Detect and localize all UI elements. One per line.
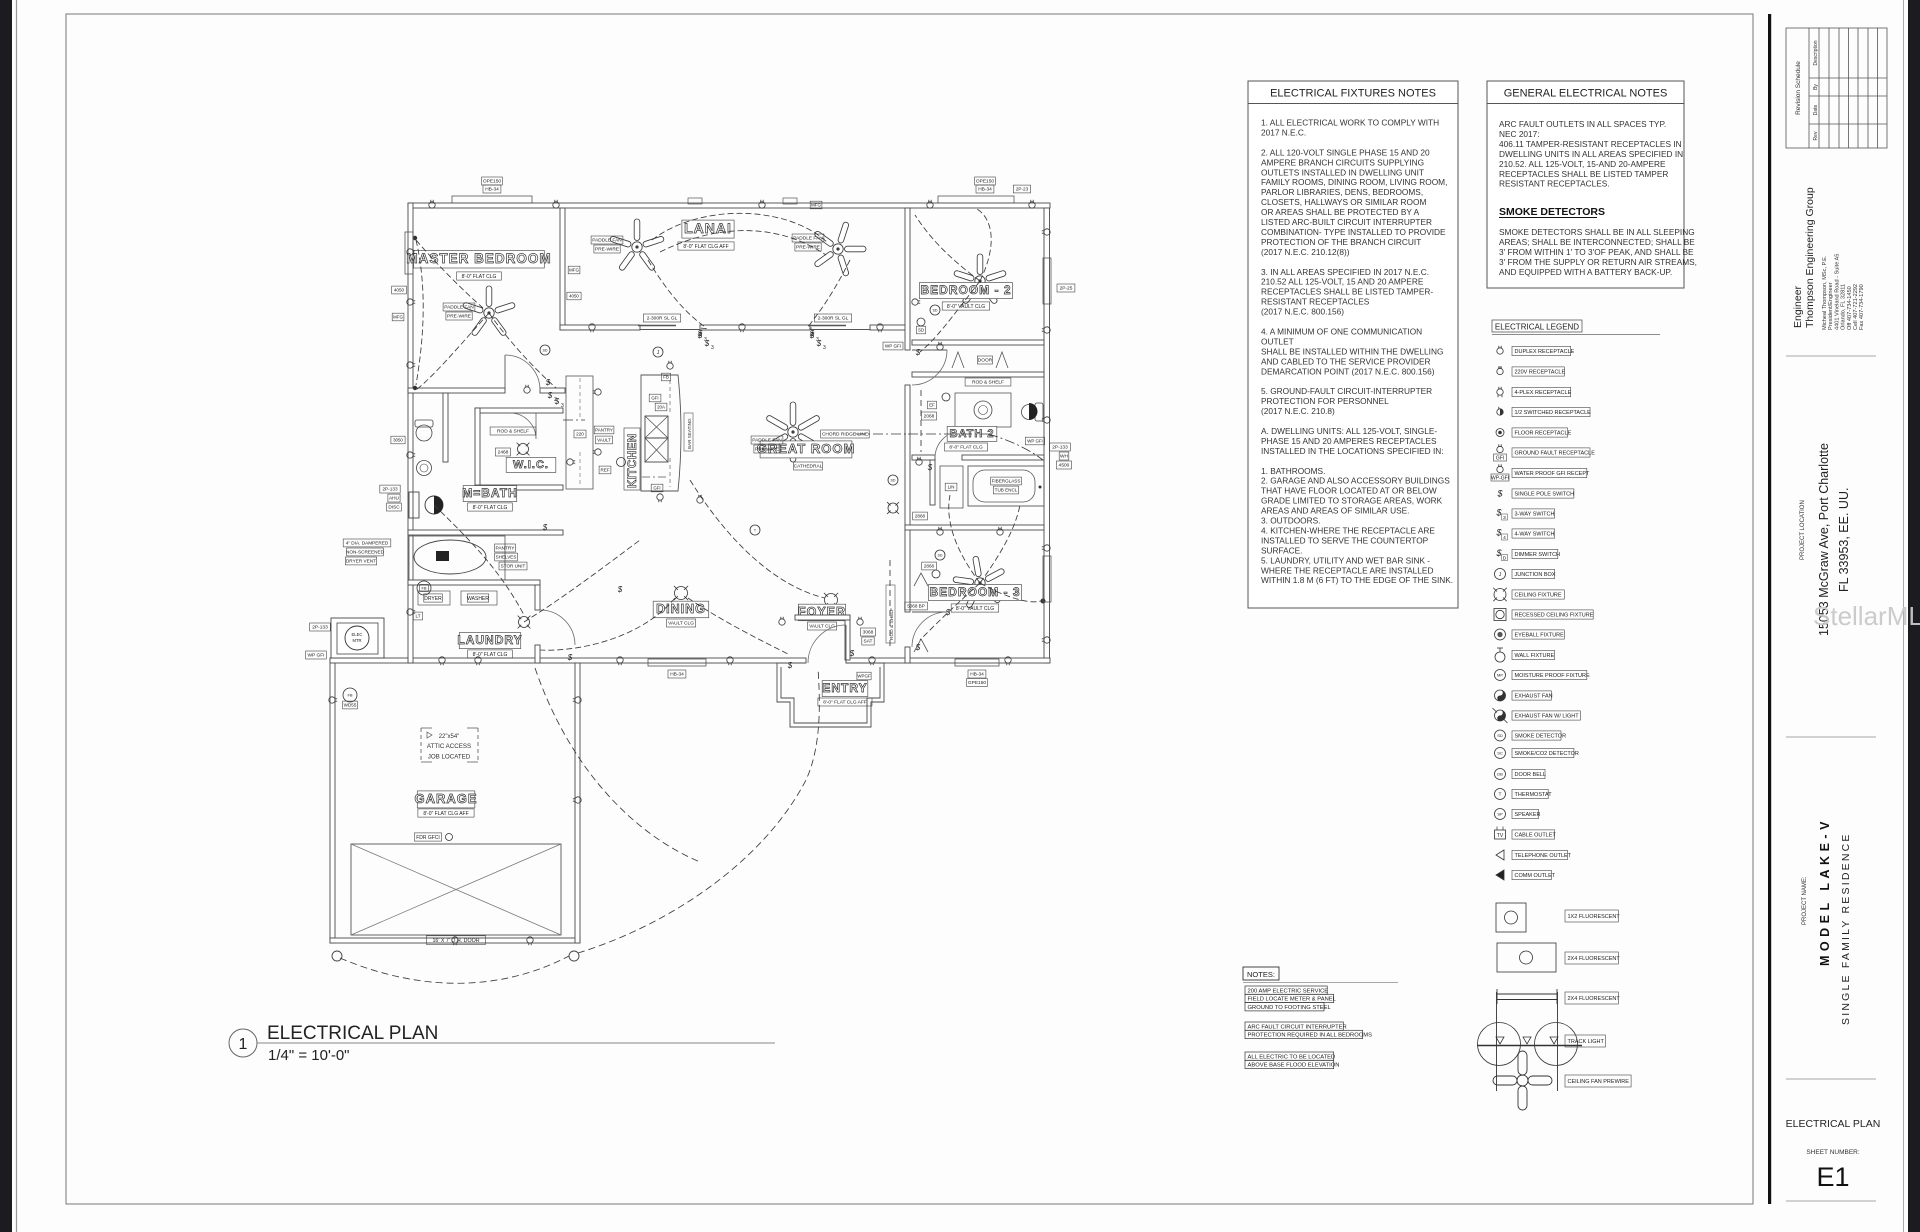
svg-text:RECEPTACLES SHALL BE LISTED TA: RECEPTACLES SHALL BE LISTED TAMPER — [1499, 169, 1668, 179]
svg-text:EXHAUST FAN W/ LIGHT: EXHAUST FAN W/ LIGHT — [1515, 714, 1580, 720]
svg-text:200 AMP ELECTRIC SERVICE: 200 AMP ELECTRIC SERVICE — [1248, 988, 1329, 994]
svg-text:D: D — [1503, 556, 1507, 562]
svg-text:RECESSED CEILING FIXTURE: RECESSED CEILING FIXTURE — [1515, 613, 1594, 619]
svg-text:ABOVE BASE FLOOD ELEVATION: ABOVE BASE FLOOD ELEVATION — [1248, 1063, 1340, 1069]
svg-text:TV: TV — [1497, 833, 1504, 839]
door: bedroom2 — [912, 349, 947, 351]
svg-text:2068: 2068 — [924, 414, 935, 420]
svg-text:ROD & SHELF: ROD & SHELF — [972, 380, 1004, 386]
svg-text:2868: 2868 — [915, 514, 926, 519]
svg-text:ROD & SHELF: ROD & SHELF — [497, 429, 529, 435]
svg-text:CEILING FAN PREWIRE: CEILING FAN PREWIRE — [1568, 1079, 1630, 1085]
wall: toilet room — [443, 393, 448, 462]
svg-text:ELECTRICAL FIXTURES NOTES: ELECTRICAL FIXTURES NOTES — [1270, 88, 1436, 100]
svg-text:DUPLEX RECEPTACLE: DUPLEX RECEPTACLE — [1515, 349, 1575, 355]
svg-text:8′-0″ FLAT CLG: 8′-0″ FLAT CLG — [473, 505, 508, 511]
svg-text:4" DIA. DAMPERED: 4" DIA. DAMPERED — [346, 541, 389, 546]
svg-text:SC: SC — [1497, 750, 1503, 755]
svg-text:8′-0″ VAULT CLG: 8′-0″ VAULT CLG — [956, 606, 994, 612]
svg-text:PRE-WIRE: PRE-WIRE — [796, 245, 820, 251]
svg-text:E1: E1 — [1816, 1162, 1849, 1192]
svg-text:$: $ — [704, 339, 710, 348]
svg-text:WASHER: WASHER — [467, 596, 489, 602]
svg-text:4050: 4050 — [569, 294, 579, 299]
wall: wic bottom — [475, 485, 563, 490]
svg-text:2X4 FLUORESCENT: 2X4 FLUORESCENT — [1568, 956, 1621, 962]
svg-text:FIELD LOCATE METER & PANEL: FIELD LOCATE METER & PANEL — [1248, 997, 1337, 1003]
svg-text:WP GFI: WP GFI — [1027, 439, 1043, 444]
svg-text:$: $ — [809, 329, 815, 338]
svg-text:RESISTANT RECEPTACLES.: RESISTANT RECEPTACLES. — [1499, 179, 1610, 189]
svg-text:SP: SP — [1497, 811, 1503, 816]
svg-text:$: $ — [617, 585, 623, 594]
svg-text:LT: LT — [415, 614, 420, 619]
svg-text:GROUND TO FOOTING STEEL: GROUND TO FOOTING STEEL — [1248, 1005, 1332, 1011]
sink — [417, 461, 432, 476]
smoke detectors & misc — [540, 345, 550, 355]
svg-text:3' FROM THE SUPPLY OR RETURN A: 3' FROM THE SUPPLY OR RETURN AIR STREAMS… — [1499, 257, 1697, 267]
entry door arc — [808, 625, 846, 663]
wall: master/lanai divider — [560, 208, 565, 330]
svg-text:WP-GFI: WP-GFI — [1491, 476, 1509, 482]
svg-text:By: By — [1813, 84, 1819, 90]
svg-text:CATHEDRAL: CATHEDRAL — [794, 464, 823, 470]
svg-text:A. DWELLING UNITS: ALL 125-VOL: A. DWELLING UNITS: ALL 125-VOLT, SINGLE- — [1261, 426, 1437, 436]
svg-text:SMOKE/CO2 DETECTOR: SMOKE/CO2 DETECTOR — [1515, 751, 1579, 757]
svg-text:4. KITCHEN-WHERE THE RECEPTACL: 4. KITCHEN-WHERE THE RECEPTACLE ARE — [1261, 525, 1435, 535]
svg-text:MTR: MTR — [352, 638, 361, 643]
svg-text:2-300R SL GL: 2-300R SL GL — [647, 316, 678, 322]
svg-text:WP GFI: WP GFI — [308, 653, 325, 659]
plan title — [229, 1029, 257, 1057]
svg-text:2P-23: 2P-23 — [1016, 187, 1029, 192]
circuit home-run arcs — [332, 951, 342, 961]
svg-text:2017 N.E.C.: 2017 N.E.C. — [1261, 127, 1306, 137]
svg-text:GROUND FAULT RECEPTACLE: GROUND FAULT RECEPTACLE — [1515, 451, 1596, 457]
svg-text:VAULT: VAULT — [597, 438, 611, 443]
svg-text:TELEPHONE OUTLET: TELEPHONE OUTLET — [1515, 853, 1572, 859]
svg-text:MOISTURE PROOF FIXTURE: MOISTURE PROOF FIXTURE — [1515, 673, 1591, 679]
title block thick divider — [1768, 14, 1771, 1204]
wall: garage right — [575, 663, 580, 943]
svg-text:$: $ — [945, 608, 951, 617]
svg-text:ENTRY: ENTRY — [822, 681, 867, 695]
mbath labels — [463, 486, 517, 502]
svg-text:2P-133: 2P-133 — [1052, 445, 1068, 451]
hall boxes — [921, 412, 936, 420]
window: master top — [452, 196, 532, 203]
svg-text:2P-25: 2P-25 — [1060, 286, 1073, 292]
svg-text:PADDLE FAN: PADDLE FAN — [592, 238, 622, 244]
garage door opening — [351, 844, 561, 935]
svg-text:PROJECT NAME:: PROJECT NAME: — [1802, 876, 1808, 925]
svg-text:PHASE 15 AND 20 AMPERES RECEPT: PHASE 15 AND 20 AMPERES RECEPTACLES — [1261, 436, 1437, 446]
svg-text:ELEC: ELEC — [352, 632, 363, 637]
svg-text:OPE150: OPE150 — [976, 179, 994, 185]
bedroom3 fan — [953, 556, 1005, 609]
wall: wic top — [475, 408, 563, 413]
hall light — [887, 502, 899, 514]
svg-text:LAUNDRY: LAUNDRY — [457, 633, 522, 647]
electrical legend title — [1492, 320, 1582, 332]
toilet — [416, 425, 432, 441]
svg-text:PANTRY: PANTRY — [495, 546, 515, 552]
svg-text:Off 407-734-1450: Off 407-734-1450 — [1847, 286, 1853, 330]
svg-text:DOOR BELL: DOOR BELL — [1515, 772, 1546, 778]
svg-text:1X2 FLUORESCENT: 1X2 FLUORESCENT — [1568, 914, 1621, 920]
svg-text:ELECTRICAL PLAN: ELECTRICAL PLAN — [1786, 1118, 1881, 1130]
svg-text:4401 Vineland Road - Suite A5: 4401 Vineland Road - Suite A5 — [1834, 254, 1840, 330]
svg-text:DEMARCATION POINT (2017 N.E.C.: DEMARCATION POINT (2017 N.E.C. 800.156) — [1261, 366, 1435, 376]
svg-text:AND EQUIPPED WITH A BATTERY BA: AND EQUIPPED WITH A BATTERY BACK-UP. — [1499, 267, 1672, 277]
svg-text:HB-34: HB-34 — [670, 672, 684, 678]
wic labels — [506, 457, 556, 472]
svg-text:DWELLING UNITS IN ALL AREAS SP: DWELLING UNITS IN ALL AREAS SPECIFIED IN — [1499, 149, 1683, 159]
svg-text:PARLOR LIBRARIES, DENS, BEDROO: PARLOR LIBRARIES, DENS, BEDROOMS, — [1261, 187, 1423, 197]
svg-text:SD: SD — [1497, 733, 1503, 738]
svg-text:EXHAUST FAN: EXHAUST FAN — [1515, 694, 1553, 700]
svg-text:PRE-WIRE: PRE-WIRE — [755, 447, 779, 453]
wall: house top — [408, 203, 1050, 208]
svg-text:2868: 2868 — [924, 564, 935, 569]
svg-text:406.11 TAMPER-RESISTANT RECEPT: 406.11 TAMPER-RESISTANT RECEPTACLES IN — [1499, 139, 1682, 149]
door: bedroom3 — [912, 611, 947, 613]
svg-text:FB: FB — [663, 375, 669, 380]
notes block bottom — [1243, 967, 1279, 980]
svg-text:Revision Schedule: Revision Schedule — [1795, 61, 1802, 115]
svg-text:SINGLE POLE SWITCH: SINGLE POLE SWITCH — [1515, 492, 1575, 498]
svg-text:$: $ — [816, 339, 822, 348]
attic access note — [421, 728, 478, 762]
svg-text:SD: SD — [891, 478, 896, 482]
svg-text:OPE150: OPE150 — [483, 179, 501, 185]
svg-text:3050: 3050 — [393, 438, 403, 443]
svg-text:WATER PROOF GFI RECEPT: WATER PROOF GFI RECEPT — [1515, 471, 1591, 477]
svg-text:$: $ — [547, 391, 553, 400]
wall: lanai bottom w/ slider openings — [560, 325, 640, 330]
svg-text:(2017 N.E.C. 210.8): (2017 N.E.C. 210.8) — [1261, 406, 1335, 416]
master tub — [409, 536, 505, 580]
svg-text:1/2 SWITCHED RECEPTACLE: 1/2 SWITCHED RECEPTACLE — [1515, 410, 1592, 416]
bedroom2 circuit — [920, 281, 980, 352]
electrical legend items — [1497, 346, 1503, 354]
AHU disconnect — [409, 492, 419, 518]
bedroom3 circuit — [920, 583, 980, 640]
svg-text:MFG: MFG — [811, 203, 821, 208]
svg-text:LISTED ARC-BUILT CIRCUIT INTER: LISTED ARC-BUILT CIRCUIT INTERRUPTER — [1261, 217, 1432, 227]
svg-text:SMOKE DETECTOR: SMOKE DETECTOR — [1515, 734, 1567, 740]
foyer walls — [845, 615, 850, 660]
wall: house right — [1044, 208, 1050, 663]
svg-text:DB: DB — [1497, 771, 1503, 776]
wall: house bottom left segment — [408, 658, 806, 663]
svg-text:2X4 FLUORESCENT: 2X4 FLUORESCENT — [1568, 996, 1621, 1002]
svg-text:5. LAUNDRY, UTILITY AND WET BA: 5. LAUNDRY, UTILITY AND WET BAR SINK - — [1261, 555, 1430, 565]
wall: laundry east — [535, 585, 540, 610]
svg-text:Fax 407-734-1790: Fax 407-734-1790 — [1859, 284, 1865, 330]
svg-text:22"x54": 22"x54" — [439, 734, 460, 740]
great room fan — [766, 402, 821, 462]
svg-text:SURFACE.: SURFACE. — [1261, 545, 1303, 555]
svg-text:(2017 N.E.C. 800.156): (2017 N.E.C. 800.156) — [1261, 307, 1344, 317]
svg-text:3. OUTDOORS.: 3. OUTDOORS. — [1261, 516, 1320, 526]
door: master — [504, 355, 506, 391]
svg-text:1. ALL ELECTRICAL WORK TO COMP: 1. ALL ELECTRICAL WORK TO COMPLY WITH — [1261, 118, 1439, 128]
svg-text:RECEPTACLES SHALL BE LISTED TA: RECEPTACLES SHALL BE LISTED TAMPER- — [1261, 287, 1433, 297]
svg-text:President/Engineer: President/Engineer — [1828, 282, 1834, 330]
svg-text:SAT: SAT — [864, 639, 873, 645]
laundry-kitchen circuit — [524, 540, 640, 622]
svg-text:WP GFI: WP GFI — [885, 344, 901, 349]
svg-text:TRACK LIGHT: TRACK LIGHT — [1568, 1039, 1605, 1045]
svg-text:GFI: GFI — [651, 396, 658, 401]
svg-text:1. BATHROOMS.: 1. BATHROOMS. — [1261, 466, 1325, 476]
small appliance receptacles — [593, 389, 601, 395]
svg-text:4. A MINIMUM OF ONE COMMUNICAT: 4. A MINIMUM OF ONE COMMUNICATION — [1261, 326, 1422, 336]
wall: master bedroom south — [408, 388, 505, 393]
svg-text:JUNCTION BOX: JUNCTION BOX — [1515, 572, 1556, 578]
windows bottom wall — [648, 659, 706, 666]
lanai fans — [610, 219, 665, 271]
svg-text:4-WAY SWITCH: 4-WAY SWITCH — [1515, 532, 1555, 538]
lanai slider doors — [640, 329, 700, 331]
svg-text:Cell 407-721-2292: Cell 407-721-2292 — [1853, 284, 1859, 330]
svg-text:EF: EF — [929, 403, 935, 408]
svg-text:PRE-WIRE: PRE-WIRE — [595, 247, 619, 253]
svg-text:210.52 ALL 125-VOLT, 15 AND 20: 210.52 ALL 125-VOLT, 15 AND 20 AMPERE — [1261, 277, 1424, 287]
svg-text:5068 BP: 5068 BP — [907, 604, 925, 609]
svg-text:8′-0″ VAULT CLG: 8′-0″ VAULT CLG — [947, 304, 985, 310]
receptacles — [429, 200, 435, 208]
svg-text:ARC FAULT CIRCUIT INTERRUPTER: ARC FAULT CIRCUIT INTERRUPTER — [1248, 1024, 1347, 1030]
svg-text:ELECTRICAL PLAN: ELECTRICAL PLAN — [267, 1023, 438, 1044]
svg-text:HB-34: HB-34 — [485, 187, 499, 193]
svg-text:ATTIC ACCESS: ATTIC ACCESS — [427, 743, 471, 750]
wall: garage left — [330, 658, 335, 943]
svg-text:REF: REF — [601, 468, 610, 473]
svg-text:OR AREAS SHALL BE PROTECTED BY: OR AREAS SHALL BE PROTECTED BY A — [1261, 207, 1420, 217]
svg-text:SMOKE DETECTORS SHALL BE IN AL: SMOKE DETECTORS SHALL BE IN ALL SLEEPING — [1499, 227, 1695, 237]
pantry boxes — [495, 544, 516, 552]
svg-text:SHELVES: SHELVES — [496, 555, 517, 560]
svg-text:DRYER: DRYER — [424, 596, 442, 602]
kitchen west counter — [566, 376, 593, 489]
svg-text:$: $ — [1496, 489, 1503, 499]
svg-text:THAT HAVE FLOOR LOCATED AT OR: THAT HAVE FLOOR LOCATED AT OR BELOW — [1261, 486, 1437, 496]
svg-text:MODEL LAKE-V: MODEL LAKE-V — [1818, 817, 1832, 966]
svg-text:BEDROOM - 2: BEDROOM - 2 — [920, 283, 1011, 297]
top small boxes — [810, 201, 822, 209]
svg-text:BEDROOM - 3: BEDROOM - 3 — [929, 585, 1020, 599]
wall: laundry north — [408, 580, 540, 585]
svg-text:210.52. ALL 125-VOLT, 15-AND 2: 210.52. ALL 125-VOLT, 15-AND 20-AMPERE — [1499, 159, 1666, 169]
svg-text:8′-0″ FLAT CLG AFF: 8′-0″ FLAT CLG AFF — [683, 244, 728, 250]
laundry labels — [459, 633, 520, 649]
svg-text:DISC: DISC — [388, 505, 400, 510]
svg-text:SD: SD — [543, 348, 548, 352]
bedroom2 closet — [912, 340, 1044, 345]
svg-text:GPE150: GPE150 — [968, 680, 986, 686]
svg-text:GRADE LIMITED TO STORAGE AREAS: GRADE LIMITED TO STORAGE AREAS, WORK — [1261, 496, 1443, 506]
wall: mbath south — [408, 530, 563, 535]
svg-text:$: $ — [787, 661, 793, 670]
kitchen island — [641, 375, 681, 491]
wall: garage top stub — [330, 658, 408, 663]
door: wic — [510, 413, 536, 439]
svg-text:3068: 3068 — [863, 630, 874, 636]
ridge dash-dot — [855, 433, 908, 435]
svg-text:3-WAY SWITCH: 3-WAY SWITCH — [1515, 512, 1555, 518]
svg-text:Description: Description — [1813, 40, 1819, 65]
wall: wic left — [475, 408, 480, 490]
svg-text:COMBINATION- TYPE INSTALLED TO: COMBINATION- TYPE INSTALLED TO PROVIDE — [1261, 227, 1446, 237]
svg-text:3. IN ALL AREAS SPECIFIED IN 2: 3. IN ALL AREAS SPECIFIED IN 2017 N.E.C. — [1261, 267, 1429, 277]
svg-text:Engineer: Engineer — [1792, 285, 1804, 328]
svg-text:2P-133: 2P-133 — [312, 625, 328, 631]
svg-text:LANAI: LANAI — [684, 220, 732, 236]
svg-text:BAR SEATING: BAR SEATING — [687, 418, 692, 449]
revision schedule table — [1786, 28, 1887, 148]
svg-text:PANTRY: PANTRY — [595, 428, 613, 433]
svg-text:StellarMLS: StellarMLS — [1813, 601, 1920, 631]
svg-text:DIMMER SWITCH: DIMMER SWITCH — [1515, 552, 1561, 558]
svg-text:W.I.C.: W.I.C. — [513, 459, 549, 471]
svg-text:WALL FIXTURE: WALL FIXTURE — [1515, 653, 1555, 659]
svg-text:20A: 20A — [657, 405, 665, 410]
master fan — [462, 286, 515, 336]
svg-text:$: $ — [915, 348, 921, 357]
hall dashed — [889, 560, 891, 650]
svg-text:$: $ — [849, 649, 855, 658]
svg-text:GFI: GFI — [1496, 456, 1504, 462]
wall: house left — [408, 203, 413, 663]
svg-text:FB: FB — [347, 692, 352, 697]
svg-text:WITHIN 1.8 M (6 FT) TO THE EDG: WITHIN 1.8 M (6 FT) TO THE EDGE OF THE S… — [1261, 575, 1453, 585]
svg-text:2468: 2468 — [498, 450, 509, 456]
svg-text:FAMILY ROOMS, DINING ROOM, LIV: FAMILY ROOMS, DINING ROOM, LIVING ROOM, — [1261, 177, 1447, 187]
svg-text:FB: FB — [421, 585, 426, 590]
electrical fixtures notes box — [1248, 81, 1458, 608]
svg-text:8′-0″ FLAT CLG: 8′-0″ FLAT CLG — [949, 445, 983, 451]
window: bedroom2 right — [1043, 258, 1051, 304]
svg-text:$: $ — [697, 329, 703, 338]
svg-text:4-PLEX RECEPTACLE: 4-PLEX RECEPTACLE — [1515, 390, 1572, 396]
svg-text:PADDLE FAN: PADDLE FAN — [752, 438, 782, 444]
window: master left — [405, 232, 413, 274]
svg-text:GFI: GFI — [653, 486, 660, 491]
bedroom2 fan — [953, 254, 1006, 304]
svg-text:VAULT CLG: VAULT CLG — [809, 624, 835, 630]
svg-text:ELECTRICAL LEGEND: ELECTRICAL LEGEND — [1495, 323, 1579, 332]
svg-text:WPGF: WPGF — [857, 674, 870, 679]
svg-text:CLOSETS, HALLWAYS OR SIMILAR R: CLOSETS, HALLWAYS OR SIMILAR ROOM — [1261, 197, 1426, 207]
svg-text:AREAS AND AREAS OF SIMILAR USE: AREAS AND AREAS OF SIMILAR USE. — [1261, 506, 1409, 516]
dryer vent note — [343, 539, 391, 547]
project name block — [1786, 736, 1876, 738]
svg-text:ALL ELECTRIC TO BE LOCATED: ALL ELECTRIC TO BE LOCATED — [1248, 1054, 1336, 1060]
svg-text:WH: WH — [1060, 454, 1069, 460]
svg-text:2. GARAGE AND ALSO ACCESSORY B: 2. GARAGE AND ALSO ACCESSORY BUILDINGS — [1261, 476, 1450, 486]
svg-text:2-300R SL GL: 2-300R SL GL — [818, 316, 849, 322]
right black bar — [1908, 0, 1920, 1232]
svg-text:JOB LOCATED: JOB LOCATED — [428, 754, 471, 761]
svg-text:8′-0″ FLAT CLG: 8′-0″ FLAT CLG — [462, 274, 497, 280]
svg-text:M=BATH: M=BATH — [462, 486, 517, 500]
svg-text:ARC FAULT OUTLETS IN ALL SPACE: ARC FAULT OUTLETS IN ALL SPACES TYP. — [1499, 119, 1666, 129]
svg-text:PROJECT LOCATION: PROJECT LOCATION — [1800, 500, 1806, 560]
svg-text:FL 33953, EE. UU.: FL 33953, EE. UU. — [1837, 488, 1851, 592]
wall: house bottom right segment — [846, 658, 1050, 663]
svg-text:AHU: AHU — [389, 496, 400, 501]
svg-text:220: 220 — [576, 432, 584, 437]
svg-text:INSTALLED TO SERVE THE COUNTER: INSTALLED TO SERVE THE COUNTERTOP — [1261, 535, 1429, 545]
svg-text:OUTLETS INSTALLED IN DWELLING: OUTLETS INSTALLED IN DWELLING UNIT — [1261, 167, 1424, 177]
svg-text:3: 3 — [1503, 515, 1506, 521]
svg-text:$: $ — [542, 523, 548, 532]
svg-text:$: $ — [915, 643, 921, 652]
svg-text:NOTES:: NOTES: — [1247, 970, 1275, 979]
svg-text:INSTALLED IN THE LOCATIONS SPE: INSTALLED IN THE LOCATIONS SPECIFIED IN: — [1261, 446, 1444, 456]
svg-text:AND CABLED TO THE SERVICE PROV: AND CABLED TO THE SERVICE PROVIDER — [1261, 356, 1431, 366]
svg-text:CABLE OUTLET: CABLE OUTLET — [1515, 833, 1557, 839]
svg-text:8′-0″ FLAT CLG AFF: 8′-0″ FLAT CLG AFF — [823, 700, 867, 706]
svg-text:SD: SD — [918, 328, 924, 333]
svg-text:$: $ — [545, 378, 551, 387]
svg-text:$: $ — [554, 397, 560, 406]
svg-text:Micheal Thompson, MSc, P.E.: Micheal Thompson, MSc, P.E. — [1822, 255, 1828, 330]
svg-text:GENERAL ELECTRICAL NOTES: GENERAL ELECTRICAL NOTES — [1504, 88, 1668, 100]
svg-text:MFG: MFG — [569, 268, 579, 273]
bath2 walls — [912, 455, 935, 460]
wall: bedroom wing west — [905, 208, 910, 350]
svg-text:KITCHEN: KITCHEN — [627, 433, 639, 488]
svg-text:1: 1 — [239, 1036, 248, 1053]
svg-text:$: $ — [927, 463, 933, 472]
svg-text:SINGLE FAMILY RESIDENCE: SINGLE FAMILY RESIDENCE — [1840, 832, 1852, 1025]
svg-text:FLOOR RECEPTACLE: FLOOR RECEPTACLE — [1515, 431, 1572, 437]
svg-text:LIN: LIN — [948, 485, 955, 490]
svg-text:TUB ENCL: TUB ENCL — [995, 488, 1018, 493]
svg-text:SMOKE DETECTORS: SMOKE DETECTORS — [1499, 206, 1605, 218]
svg-text:DINING: DINING — [656, 602, 706, 616]
svg-text:2P-133: 2P-133 — [382, 487, 398, 492]
svg-text:3' FROM WITHIN 1' TO 3'OF PEAK: 3' FROM WITHIN 1' TO 3'OF PEAK, AND SHAL… — [1499, 247, 1694, 257]
svg-text:220V RECEPTACLE: 220V RECEPTACLE — [1515, 370, 1566, 376]
svg-text:NEC 2017:: NEC 2017: — [1499, 129, 1540, 139]
svg-text:FDR GFCI: FDR GFCI — [416, 835, 440, 841]
svg-text:$: $ — [567, 653, 573, 662]
svg-text:3: 3 — [823, 345, 826, 351]
svg-text:HB-34: HB-34 — [970, 672, 984, 678]
svg-text:MASTER BEDROOM: MASTER BEDROOM — [406, 251, 551, 266]
svg-text:Rev: Rev — [1813, 131, 1819, 140]
bath2 counter & fixtures — [955, 393, 1011, 427]
svg-text:Date: Date — [1813, 105, 1819, 116]
svg-text:EYEBALL FIXTURE: EYEBALL FIXTURE — [1515, 633, 1565, 639]
svg-text:RESISTANT RECEPTACLES: RESISTANT RECEPTACLES — [1261, 297, 1370, 307]
svg-text:SHALL BE INSTALLED WITHIN THE: SHALL BE INSTALLED WITHIN THE DWELLING — [1261, 346, 1443, 356]
svg-text:Thompson Engineering Group: Thompson Engineering Group — [1804, 187, 1816, 328]
svg-text:WD55: WD55 — [344, 703, 357, 708]
svg-text:5. GROUND-FAULT CIRCUIT-INTERR: 5. GROUND-FAULT CIRCUIT-INTERRUPTER — [1261, 386, 1432, 396]
svg-text:4: 4 — [1503, 535, 1506, 541]
svg-text:CHORD RIDGE LINE: CHORD RIDGE LINE — [822, 432, 868, 438]
right thin line — [1903, 0, 1905, 1232]
svg-text:PROTECTION FOR PERSONNEL: PROTECTION FOR PERSONNEL — [1261, 396, 1389, 406]
entry alcove — [777, 663, 884, 727]
svg-text:3: 3 — [561, 403, 564, 409]
left black bar — [0, 0, 12, 1232]
